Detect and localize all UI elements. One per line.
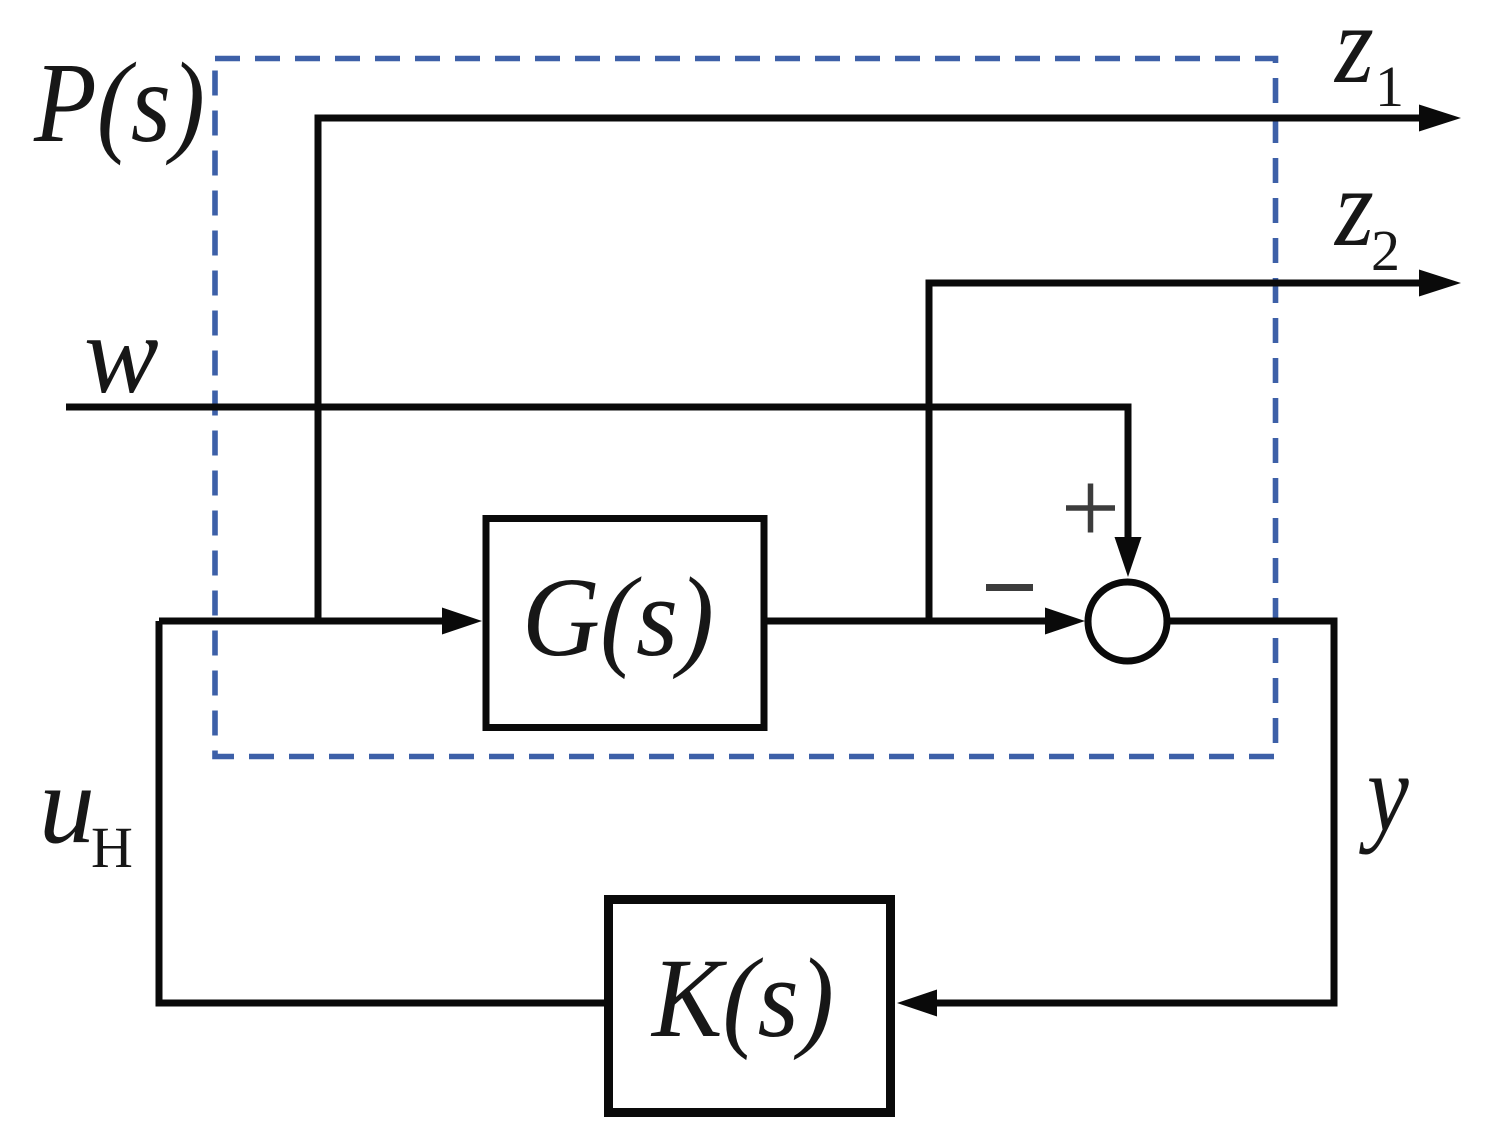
svg-text:z: z bbox=[1333, 146, 1374, 270]
wire uH feedback (K output left, up, to G input) bbox=[159, 621, 608, 1003]
wire G output to summer bbox=[767, 618, 1048, 625]
arrowhead into summer (right) bbox=[1045, 608, 1085, 635]
arrowhead into G bbox=[442, 608, 482, 635]
minus sign bbox=[986, 584, 1033, 591]
svg-text:H: H bbox=[91, 815, 133, 880]
svg-text:1: 1 bbox=[1375, 54, 1404, 119]
wire w (horizontal input, crosses two verticals, then down into summer) bbox=[66, 407, 1128, 540]
wire G input (from feedback corner to G) bbox=[159, 618, 445, 625]
svg-text:2: 2 bbox=[1371, 218, 1400, 283]
wire summer output to right bbox=[1167, 618, 1334, 625]
arrowhead into K (left) bbox=[897, 990, 937, 1017]
block G(s) bbox=[486, 519, 764, 728]
arrowhead w into summer (down) bbox=[1115, 537, 1142, 577]
svg-text:P(s): P(s) bbox=[33, 39, 205, 166]
svg-text:G(s): G(s) bbox=[522, 555, 714, 680]
svg-text:w: w bbox=[84, 293, 159, 417]
block K(s) bbox=[609, 900, 891, 1113]
plus sign bbox=[1066, 484, 1115, 533]
arrowhead z1 bbox=[1419, 105, 1461, 132]
svg-text:y: y bbox=[1359, 731, 1409, 854]
wire z2 (vertical leg from G-output junction up, then right) bbox=[929, 283, 1423, 625]
wire y (down the right side and into K) bbox=[934, 618, 1334, 1004]
svg-text:K(s): K(s) bbox=[650, 936, 834, 1061]
summing junction circle bbox=[1088, 582, 1167, 661]
arrowhead z2 bbox=[1419, 270, 1461, 297]
svg-text:z: z bbox=[1333, 0, 1374, 106]
svg-text:u: u bbox=[39, 743, 95, 867]
wire z1 (vertical leg from G-input junction up, then right) bbox=[318, 118, 1423, 625]
plant boundary P(s) dashed box bbox=[215, 59, 1276, 757]
